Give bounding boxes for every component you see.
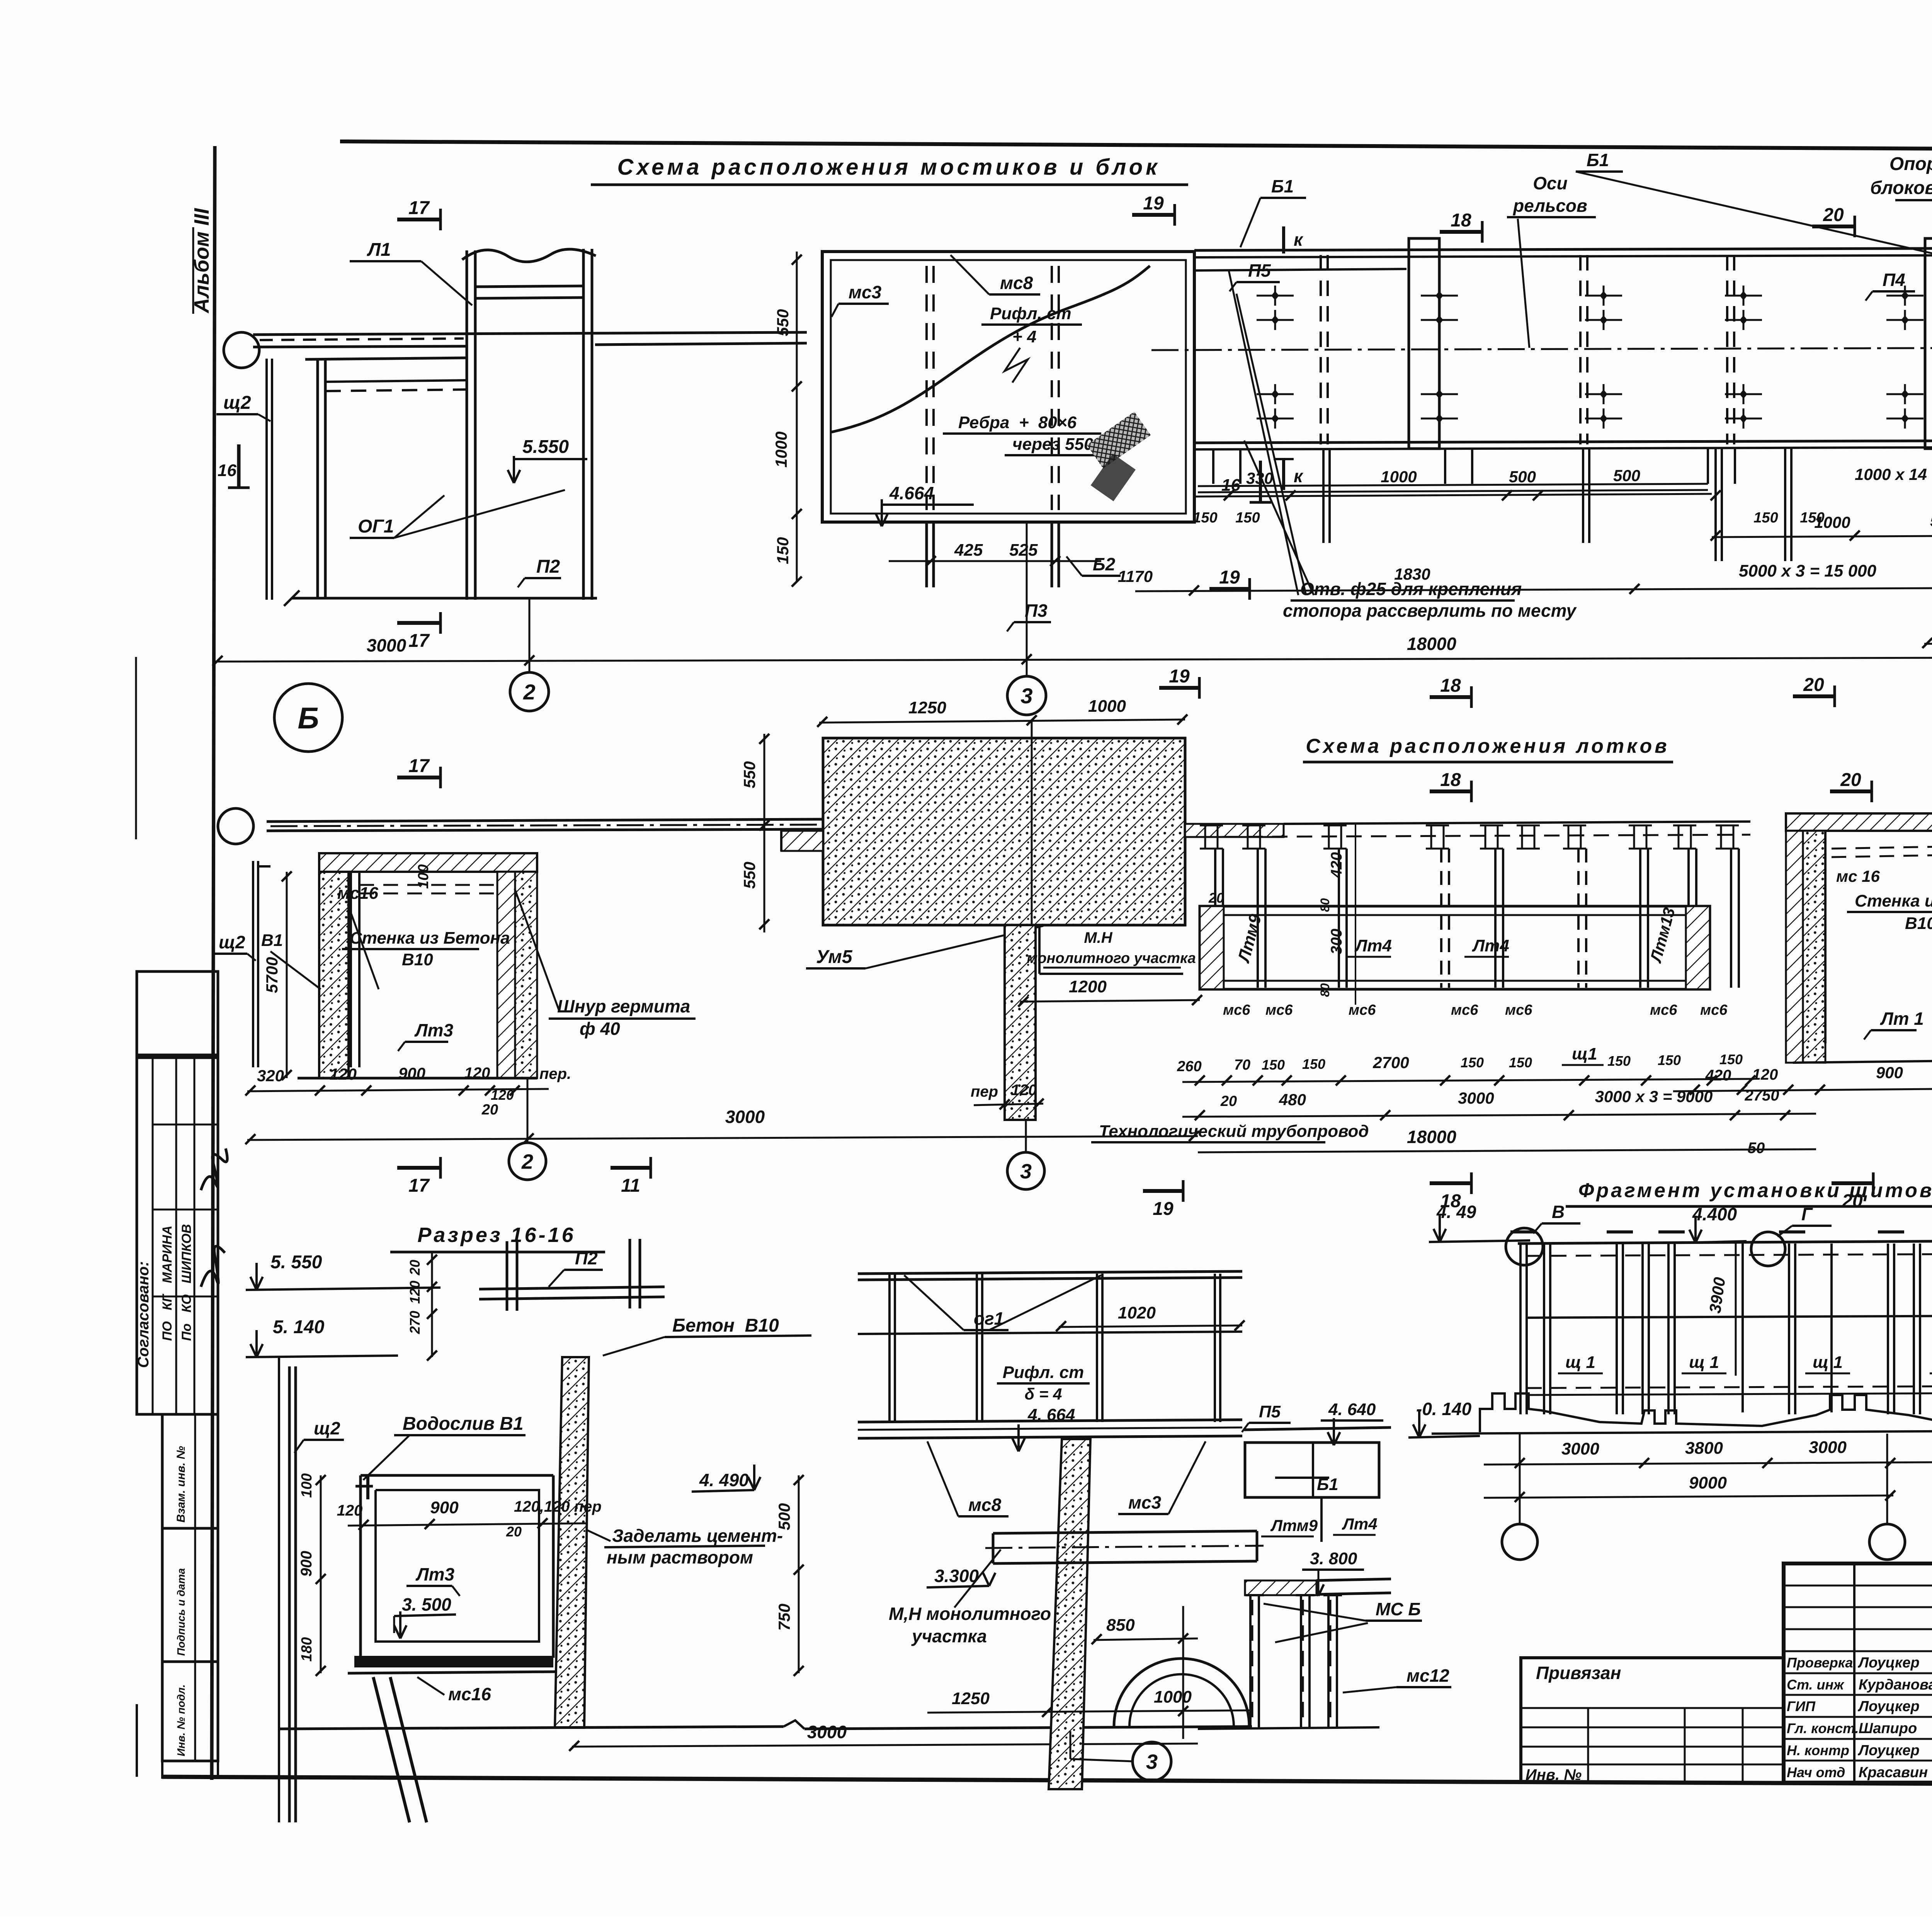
- column L1 top break wave: [462, 249, 596, 262]
- svg-text:Лт 1: Лт 1: [1880, 1009, 1924, 1029]
- svg-text:150: 150: [1461, 1055, 1484, 1070]
- svg-text:150: 150: [774, 537, 792, 564]
- dim 1250 1000 r16: [927, 1710, 1252, 1713]
- r16 hanger caps: [1245, 1594, 1264, 1596]
- slab axis3 centerline: [1031, 720, 1033, 925]
- svg-text:Лт3: Лт3: [414, 1020, 454, 1040]
- svg-text:мс8: мс8: [1000, 273, 1033, 293]
- section mark 18 top strip: [1440, 230, 1482, 234]
- strip lower thin rails: [1198, 484, 1708, 486]
- svg-text:1170: 1170: [1118, 567, 1153, 585]
- section mark 17 middle bottom: [397, 1166, 440, 1170]
- dim 5700 rotated: [286, 872, 288, 1078]
- svg-text:через 550: через 550: [1012, 435, 1094, 454]
- svg-text:В: В: [1552, 1202, 1565, 1222]
- svg-text:щ 1: щ 1: [1689, 1353, 1719, 1372]
- dim 18000 middle: [1198, 1149, 1816, 1152]
- railing posts r16: [888, 1274, 891, 1422]
- section mark 20 lotki mid: [1830, 789, 1872, 793]
- dim 550 550 left of slab: [764, 734, 765, 932]
- section mark 20 top strip: [1812, 225, 1855, 228]
- grand dim row line: [215, 657, 1932, 662]
- svg-text:5. 140: 5. 140: [273, 1317, 325, 1337]
- section mark 19 top: [1132, 213, 1175, 217]
- fragment base line: [1432, 1431, 1932, 1434]
- svg-text:Взам. инв. №: Взам. инв. №: [175, 1446, 187, 1523]
- svg-text:Инв. №: Инв. №: [1526, 1766, 1582, 1783]
- svg-text:Г: Г: [1801, 1204, 1813, 1224]
- og1 railing right part: [858, 1271, 1242, 1274]
- svg-text:рельсов: рельсов: [1512, 196, 1587, 216]
- svg-text:Б1: Б1: [1587, 150, 1609, 170]
- svg-text:Заделать цемент-: Заделать цемент-: [612, 1526, 783, 1546]
- joint dashed pair c: [1726, 255, 1728, 444]
- svg-text:3000: 3000: [1561, 1439, 1599, 1458]
- svg-text:1200: 1200: [1069, 977, 1107, 996]
- mostik panel inner box: [831, 260, 1186, 514]
- dim line 3000 right segment: [1924, 642, 1932, 644]
- svg-text:мс6: мс6: [1505, 1002, 1532, 1018]
- svg-text:Бетон В10: Бетон В10: [672, 1315, 779, 1336]
- axis circle 3 r16: [1133, 1742, 1171, 1781]
- callout circle G fragment: [1751, 1232, 1785, 1266]
- lotki hangers: [1214, 849, 1216, 988]
- basin bottom slab dark: [354, 1656, 553, 1667]
- svg-text:щ2: щ2: [219, 932, 245, 952]
- svg-text:Согласовано:: Согласовано:: [135, 1261, 152, 1368]
- svg-text:300: 300: [1328, 929, 1345, 954]
- lotki dim row 2: [1182, 1114, 1816, 1117]
- svg-text:17: 17: [408, 631, 430, 651]
- P2 crossbeam top: [506, 1241, 509, 1311]
- svg-text:150: 150: [1800, 510, 1824, 526]
- svg-text:Б1: Б1: [1271, 176, 1294, 196]
- svg-text:монолитного участка: монолитного участка: [1027, 950, 1196, 966]
- svg-text:1020: 1020: [1118, 1303, 1156, 1322]
- svg-text:ным раствором: ным раствором: [607, 1547, 753, 1567]
- right walls left wall hatched: [1786, 831, 1803, 1063]
- svg-text:стопора рассверлить по месту: стопора рассверлить по месту: [1283, 601, 1577, 621]
- plan strip second rail: [1194, 269, 1406, 270]
- svg-text:120: 120: [337, 1502, 363, 1519]
- dim row A line: [1194, 494, 1712, 497]
- svg-text:3: 3: [1020, 1160, 1032, 1183]
- left walls top beam hatched: [319, 853, 537, 872]
- svg-text:Курданова: Курданова: [1859, 1677, 1932, 1693]
- svg-text:М,Н монолитного: М,Н монолитного: [889, 1604, 1051, 1624]
- svg-text:900: 900: [398, 1064, 425, 1082]
- svg-text:120: 120: [407, 1281, 423, 1304]
- svg-text:100: 100: [299, 1473, 315, 1498]
- beam pipe r16: [993, 1531, 1257, 1533]
- svg-text:270: 270: [407, 1311, 423, 1334]
- svg-text:20: 20: [481, 1102, 498, 1118]
- svg-text:Лтм9: Лтм9: [1270, 1516, 1318, 1535]
- right walls inner lines: [1824, 831, 1827, 1043]
- svg-text:1000: 1000: [1381, 468, 1417, 486]
- svg-text:180: 180: [299, 1637, 315, 1662]
- svg-text:ф 40: ф 40: [580, 1019, 620, 1039]
- left arm callout circle: [218, 808, 253, 844]
- svg-text:19: 19: [1143, 193, 1164, 214]
- pencil smudge 1: [1087, 412, 1151, 468]
- svg-text:550: 550: [740, 862, 759, 889]
- svg-text:20: 20: [1803, 675, 1824, 695]
- ym5 slab hatched: [823, 738, 1185, 925]
- svg-text:5.550: 5.550: [522, 437, 569, 457]
- svg-text:Фрагмент установки щитов щ1: Фрагмент установки щитов щ1: [1578, 1179, 1932, 1202]
- lotki strip dashed line: [1198, 835, 1750, 837]
- svg-text:150: 150: [1193, 510, 1217, 526]
- svg-text:500: 500: [1613, 466, 1640, 485]
- basin weir detail: [366, 1476, 369, 1499]
- svg-text:18000: 18000: [1407, 634, 1456, 654]
- mark 1k lower: [1282, 458, 1285, 490]
- svg-text:150: 150: [1235, 510, 1260, 526]
- arc opening r16: [1114, 1659, 1249, 1727]
- grand dim middle 3000: [247, 1136, 1198, 1140]
- svg-text:По КО ШИПКОВ: По КО ШИПКОВ: [179, 1224, 194, 1341]
- svg-text:500: 500: [1930, 512, 1932, 530]
- hatched column r16: [555, 1357, 589, 1728]
- monolith column hatched: [1005, 925, 1036, 1120]
- svg-text:мс12: мс12: [1406, 1666, 1449, 1686]
- slant hatched column r16: [1049, 1439, 1090, 1789]
- callout circle left end: [224, 332, 259, 368]
- svg-text:Схема расположения мостиков: Схема расположения мостиков и блок: [617, 155, 1160, 180]
- dims per 120 below column: [974, 1104, 1043, 1105]
- svg-text:Б2: Б2: [1093, 554, 1116, 574]
- svg-text:120: 120: [491, 1087, 514, 1103]
- svg-text:150: 150: [1302, 1056, 1325, 1072]
- svg-text:3000: 3000: [807, 1722, 847, 1742]
- svg-text:ОГ1: ОГ1: [358, 516, 394, 537]
- lotki strip top boundary: [1284, 822, 1750, 824]
- svg-text:850: 850: [1106, 1616, 1135, 1635]
- svg-text:мс6: мс6: [1265, 1002, 1293, 1018]
- svg-text:мс6: мс6: [1700, 1002, 1728, 1018]
- plan strip bottom rail: [1194, 440, 1932, 443]
- section mark 19 bottom strip: [1159, 686, 1199, 690]
- svg-text:Рифл. ст: Рифл. ст: [1003, 1363, 1084, 1382]
- svg-text:ГИП: ГИП: [1787, 1698, 1816, 1714]
- walkway beam double line: [253, 332, 807, 335]
- svg-text:Подпись и дата: Подпись и дата: [175, 1568, 187, 1656]
- svg-text:50: 50: [1748, 1140, 1765, 1157]
- svg-text:Оси: Оси: [1533, 173, 1567, 193]
- svg-text:3000: 3000: [1809, 1438, 1847, 1457]
- plan strip centerline: [1151, 347, 1932, 350]
- label MN monolitnogo uchastka box: [1038, 926, 1041, 974]
- svg-text:19: 19: [1153, 1199, 1173, 1219]
- dims 100 900 180 rotated r16: [320, 1475, 322, 1673]
- svg-text:19: 19: [1169, 666, 1190, 687]
- svg-text:мс8: мс8: [968, 1495, 1002, 1515]
- axis circle 3 middle bottom: [1007, 1152, 1044, 1189]
- block B1 rect 2: [1925, 238, 1932, 449]
- mostik panel rib dashed right: [1051, 266, 1053, 510]
- fragment post caps: [1510, 1230, 1537, 1233]
- svg-text:3.300: 3.300: [934, 1566, 979, 1586]
- svg-text:4. 490: 4. 490: [699, 1470, 749, 1490]
- svg-text:120: 120: [1011, 1082, 1037, 1099]
- svg-text:120,120 пер: 120,120 пер: [514, 1498, 602, 1515]
- svg-text:щ2: щ2: [223, 393, 251, 413]
- svg-text:δ = 4: δ = 4: [1025, 1385, 1062, 1403]
- svg-text:П3: П3: [1025, 601, 1048, 621]
- svg-text:участка: участка: [911, 1626, 987, 1646]
- sheet frame bottom border: [162, 1777, 1932, 1786]
- svg-text:80: 80: [1318, 898, 1332, 912]
- axis circle 2 top: [510, 672, 549, 711]
- dim 850 r16: [1094, 1638, 1198, 1640]
- panel sch2 r16: [288, 1366, 291, 1822]
- svg-text:Гл. конст.: Гл. конст.: [1787, 1720, 1859, 1736]
- svg-text:5700: 5700: [263, 957, 281, 993]
- thin hatched strip right of slab: [1185, 824, 1284, 837]
- lotok end hatched right: [1686, 906, 1710, 989]
- fragment posts: [1519, 1244, 1522, 1414]
- svg-text:Стенка из Бетона: Стенка из Бетона: [1855, 891, 1932, 910]
- left margin stamp lower boxes Vzam inv: [162, 1414, 218, 1528]
- svg-text:1000: 1000: [772, 432, 790, 468]
- mostik panel outer box: [822, 252, 1194, 522]
- svg-text:Опоры из бетонных: Опоры из бетонных: [1889, 154, 1932, 174]
- inner wall lines: [350, 872, 352, 1067]
- axis circle B big: [274, 684, 342, 752]
- svg-text:Лт3: Лт3: [415, 1564, 455, 1584]
- svg-text:Привязан: Привязан: [1536, 1663, 1621, 1683]
- svg-text:мс3: мс3: [849, 282, 882, 302]
- svg-text:Лоуцкер: Лоуцкер: [1857, 1698, 1920, 1715]
- svg-text:500: 500: [1509, 468, 1536, 486]
- svg-text:Лт4: Лт4: [1472, 936, 1509, 955]
- dim row A right part: [1712, 534, 1932, 537]
- svg-text:20: 20: [1823, 205, 1844, 225]
- svg-text:750: 750: [775, 1604, 793, 1631]
- svg-text:+ 4: + 4: [1012, 327, 1036, 346]
- svg-text:3800: 3800: [1685, 1439, 1723, 1458]
- svg-text:Лоуцкер: Лоуцкер: [1857, 1655, 1920, 1671]
- cross markers lower row: [1257, 393, 1294, 395]
- svg-text:4. 640: 4. 640: [1328, 1400, 1376, 1419]
- sheet frame top border: [340, 141, 1932, 151]
- svg-text:330: 330: [1246, 469, 1273, 487]
- svg-text:70: 70: [1234, 1057, 1250, 1073]
- svg-text:Б: Б: [298, 701, 319, 735]
- left margin stamp lower boxes Inv no podl: [162, 1662, 218, 1761]
- strip legs a: [1322, 449, 1325, 543]
- svg-text:блоков по ГОСТ 13579-78: блоков по ГОСТ 13579-78: [1870, 178, 1932, 198]
- svg-text:мс16: мс16: [448, 1684, 491, 1704]
- svg-text:мс6: мс6: [1223, 1002, 1250, 1018]
- svg-text:Технологический трубопровод: Технологический трубопровод: [1099, 1122, 1369, 1141]
- section mark 17 middle top: [397, 776, 440, 779]
- basin outer r16: [361, 1474, 553, 1477]
- svg-text:4.664: 4.664: [889, 483, 934, 503]
- block B1 rect 1: [1409, 238, 1439, 449]
- basin inner r16: [376, 1490, 539, 1642]
- title block left grid rows: [1784, 1585, 1932, 1587]
- plan strip top rail: [1194, 247, 1932, 250]
- fragment top rail: [1518, 1240, 1932, 1244]
- svg-text:Рифл. ст: Рифл. ст: [990, 304, 1071, 323]
- svg-text:16: 16: [218, 461, 236, 480]
- svg-text:260: 260: [1177, 1058, 1201, 1075]
- svg-text:пер: пер: [971, 1083, 998, 1100]
- svg-text:Ст. инж: Ст. инж: [1787, 1677, 1845, 1693]
- section mark 18 lotki bottom: [1430, 1181, 1471, 1185]
- fragment axis circle left: [1502, 1524, 1537, 1560]
- lotki dim row 1: [1182, 1079, 1754, 1082]
- svg-text:4. 664: 4. 664: [1027, 1405, 1075, 1424]
- sheet frame left border: [212, 146, 215, 1780]
- svg-text:150: 150: [1607, 1053, 1631, 1069]
- dim 1020 r16: [1059, 1325, 1242, 1327]
- svg-text:150: 150: [1753, 510, 1778, 526]
- left margin stamp block signature box: [137, 1058, 218, 1414]
- svg-text:Лтм9: Лтм9: [1234, 912, 1265, 965]
- right walls bottom: [1793, 1060, 1932, 1063]
- svg-text:150: 150: [1719, 1051, 1743, 1067]
- svg-text:Шапиро: Шапиро: [1859, 1720, 1917, 1737]
- svg-text:3. 800: 3. 800: [1310, 1549, 1357, 1568]
- svg-text:Инв. № подл.: Инв. № подл.: [175, 1684, 187, 1756]
- title block left grid verticals: [1853, 1563, 1855, 1783]
- svg-text:мс6: мс6: [1349, 1002, 1376, 1018]
- section mark 17 bottom: [397, 621, 440, 625]
- svg-text:2: 2: [521, 1150, 533, 1173]
- tank inner ledge: [325, 380, 467, 382]
- svg-text:150: 150: [1262, 1057, 1285, 1073]
- lotki strip I-beam row: [1204, 825, 1206, 849]
- left margin stamp lower boxes Podpis i data: [162, 1528, 218, 1662]
- left margin stamp block upper box: [137, 971, 218, 1055]
- stamp signature scribbles: [201, 1148, 227, 1190]
- svg-text:щ2: щ2: [314, 1418, 340, 1438]
- svg-text:мс16: мс16: [337, 884, 378, 903]
- svg-text:900: 900: [430, 1498, 459, 1517]
- r16 hatched band: [1245, 1580, 1316, 1595]
- svg-text:3000: 3000: [1458, 1089, 1494, 1107]
- mark 1k upper: [1282, 226, 1285, 253]
- svg-text:М.Н: М.Н: [1084, 929, 1112, 946]
- left dim column 550 1000 150: [796, 252, 798, 582]
- svg-text:мс3: мс3: [1128, 1492, 1162, 1512]
- svg-text:18: 18: [1440, 675, 1461, 696]
- svg-text:3900: 3900: [1706, 1276, 1729, 1314]
- fold mark line left margin: [135, 657, 137, 839]
- svg-text:3: 3: [1146, 1750, 1158, 1773]
- svg-text:3: 3: [1020, 684, 1032, 708]
- svg-text:мс6: мс6: [1650, 1002, 1677, 1018]
- lotok end hatched left: [1200, 906, 1224, 989]
- mostik legs: [925, 522, 928, 587]
- svg-text:5. 550: 5. 550: [270, 1252, 322, 1273]
- fragment dim row 3000s: [1484, 1461, 1932, 1465]
- svg-text:425: 425: [954, 541, 983, 560]
- svg-text:2: 2: [523, 680, 535, 704]
- svg-text:17: 17: [408, 198, 430, 218]
- r16 hangers triple: [1198, 1727, 1379, 1729]
- svg-text:17: 17: [408, 756, 430, 776]
- right wall hatched pair: [497, 872, 515, 1078]
- svg-text:Нач отд: Нач отд: [1787, 1764, 1845, 1780]
- svg-text:В10: В10: [1905, 914, 1932, 933]
- left wall hatched: [319, 872, 349, 1078]
- svg-text:щ 1: щ 1: [1813, 1353, 1843, 1372]
- cross markers upper row: [1257, 295, 1294, 297]
- panel sch2 thin: [265, 359, 268, 600]
- svg-text:щ 1: щ 1: [1565, 1353, 1595, 1372]
- svg-text:80: 80: [1318, 983, 1332, 997]
- dims under left walls: [247, 1089, 549, 1091]
- column L1 inner rail: [475, 286, 583, 287]
- svg-text:Лт4: Лт4: [1354, 936, 1392, 955]
- flange stubs below strip: [1212, 449, 1214, 484]
- dim 1200: [1020, 1000, 1200, 1002]
- svg-text:11: 11: [621, 1176, 640, 1196]
- svg-text:420: 420: [1705, 1067, 1731, 1084]
- svg-text:900: 900: [298, 1551, 315, 1577]
- dim 425 525: [889, 560, 1101, 562]
- walls bottom line: [298, 1077, 537, 1080]
- svg-text:100: 100: [415, 864, 432, 889]
- mostik panel rib dashed left: [925, 266, 928, 510]
- title block privyazan box: [1521, 1658, 1784, 1783]
- pencil smudge 2: [1091, 454, 1136, 501]
- svg-text:1000 х 14 = 14000: 1000 х 14 = 14000: [1855, 465, 1932, 483]
- svg-text:5000 х 3 = 15 000: 5000 х 3 = 15 000: [1739, 561, 1877, 580]
- dim 3000 r16: [572, 1744, 1198, 1747]
- svg-text:4.400: 4.400: [1692, 1204, 1737, 1224]
- svg-text:120: 120: [330, 1065, 357, 1083]
- svg-text:550: 550: [740, 761, 759, 788]
- fragment foundation profile: [1480, 1393, 1932, 1432]
- strip legs b: [1582, 449, 1584, 543]
- panel sch2 thin middle: [252, 861, 254, 1067]
- svg-text:18000: 18000: [1407, 1127, 1456, 1147]
- svg-text:к: к: [1294, 230, 1304, 250]
- svg-text:120: 120: [464, 1065, 490, 1082]
- svg-text:Разрез 16-16: Разрез 16-16: [417, 1223, 575, 1247]
- svg-text:20: 20: [1208, 890, 1224, 906]
- section mark 19 lotki bottom: [1143, 1189, 1183, 1193]
- column L1 left chord: [466, 250, 468, 600]
- diagonal struts r16: [373, 1677, 410, 1822]
- section mark 20 lotki top: [1793, 694, 1835, 698]
- svg-text:1830: 1830: [1394, 565, 1430, 583]
- svg-text:19: 19: [1219, 567, 1240, 588]
- dim row B line: [1135, 587, 1932, 591]
- section mark 17 top: [397, 218, 440, 221]
- slab left arm step hatched bit: [781, 831, 823, 851]
- walkway band r16: [858, 1420, 1242, 1422]
- r16 top shelf line: [1244, 1427, 1391, 1430]
- svg-text:550: 550: [774, 309, 792, 336]
- svg-text:Стенка из Бетона: Стенка из Бетона: [350, 929, 510, 948]
- svg-text:20: 20: [506, 1524, 522, 1540]
- svg-text:20: 20: [407, 1260, 423, 1276]
- svg-text:В10: В10: [402, 950, 433, 969]
- corner mark G: [258, 865, 270, 868]
- svg-text:Л1: Л1: [367, 240, 391, 260]
- svg-text:18: 18: [1440, 770, 1461, 790]
- svg-text:Ребра + 80×6: Ребра + 80×6: [958, 413, 1077, 432]
- lotok channel body: [1200, 906, 1710, 989]
- svg-text:-0. 140: -0. 140: [1416, 1399, 1472, 1419]
- svg-text:480: 480: [1279, 1090, 1306, 1109]
